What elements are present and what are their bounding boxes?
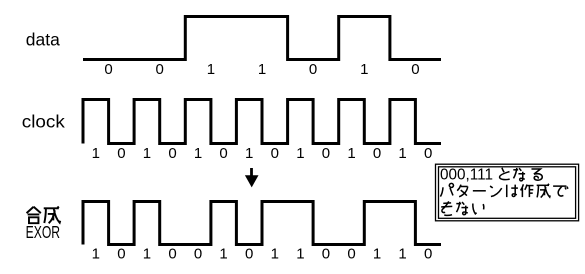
svg-text:1: 1 bbox=[143, 246, 151, 263]
svg-text:0: 0 bbox=[271, 145, 279, 162]
clock waveform bbox=[83, 100, 441, 144]
svg-text:1: 1 bbox=[360, 61, 368, 78]
annotation box inner border bbox=[439, 167, 576, 219]
annotation text line2: pattern wa sakusei de bbox=[440, 183, 568, 197]
svg-text:1: 1 bbox=[258, 61, 266, 78]
annotation text line3: kinai bbox=[441, 201, 484, 215]
svg-text:0: 0 bbox=[168, 246, 176, 263]
EXOR bit values 10100101100110 bbox=[92, 246, 433, 263]
svg-text:000,111: 000,111 bbox=[440, 167, 493, 184]
svg-text:0: 0 bbox=[322, 145, 330, 162]
svg-text:0: 0 bbox=[219, 145, 227, 162]
svg-text:1: 1 bbox=[143, 145, 151, 162]
svg-text:EXOR: EXOR bbox=[26, 222, 61, 242]
EXOR waveform (data XOR clock) bbox=[83, 202, 441, 245]
svg-text:1: 1 bbox=[245, 145, 253, 162]
svg-text:1: 1 bbox=[398, 246, 406, 263]
svg-text:0: 0 bbox=[194, 246, 202, 263]
svg-text:0: 0 bbox=[347, 246, 355, 263]
annotation text line1: 000,111 tonaru bbox=[440, 167, 542, 184]
svg-text:1: 1 bbox=[194, 145, 202, 162]
label EXOR bbox=[26, 222, 61, 242]
svg-text:1: 1 bbox=[92, 246, 100, 263]
svg-text:0: 0 bbox=[411, 61, 419, 78]
data bit values 0011010 bbox=[104, 61, 419, 78]
svg-text:1: 1 bbox=[271, 246, 279, 263]
svg-text:0: 0 bbox=[309, 61, 317, 78]
svg-text:0: 0 bbox=[104, 61, 112, 78]
svg-text:1: 1 bbox=[207, 61, 215, 78]
svg-text:1: 1 bbox=[219, 246, 227, 263]
svg-text:1: 1 bbox=[347, 145, 355, 162]
svg-text:0: 0 bbox=[245, 246, 253, 263]
svg-text:0: 0 bbox=[156, 61, 164, 78]
label data bbox=[26, 30, 60, 50]
svg-text:1: 1 bbox=[296, 145, 304, 162]
svg-text:0: 0 bbox=[168, 145, 176, 162]
svg-text:1: 1 bbox=[398, 145, 406, 162]
arrow pointing down at EXOR waveform bbox=[245, 168, 259, 187]
svg-text:0: 0 bbox=[373, 145, 381, 162]
svg-text:0: 0 bbox=[322, 246, 330, 263]
data waveform bbox=[83, 17, 441, 60]
svg-text:0: 0 bbox=[117, 246, 125, 263]
svg-text:data: data bbox=[26, 30, 60, 50]
svg-text:0: 0 bbox=[117, 145, 125, 162]
annotation box outer border bbox=[436, 164, 579, 221]
svg-text:1: 1 bbox=[92, 145, 100, 162]
svg-text:1: 1 bbox=[296, 246, 304, 263]
svg-text:clock: clock bbox=[22, 112, 65, 132]
svg-text:1: 1 bbox=[373, 246, 381, 263]
clock bit values 10101010101010 bbox=[92, 145, 433, 162]
svg-text:0: 0 bbox=[424, 145, 432, 162]
label clock bbox=[22, 112, 65, 132]
label 合成 (gousei) bbox=[27, 206, 61, 223]
svg-text:0: 0 bbox=[424, 246, 432, 263]
